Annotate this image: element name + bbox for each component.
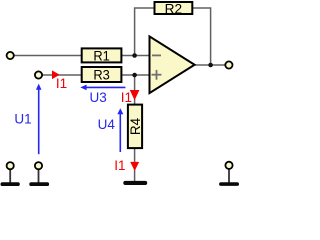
wire: op-amp output to terminal [195,64,225,66]
resistor R4 [128,105,143,149]
voltage arrow U3 [80,85,125,91]
resistor R2 [155,1,193,16]
terminal: input B [35,71,42,78]
wire: stem terminal G3 to ground [228,169,230,183]
node N2: R4 junction on non-inverting input [132,73,137,78]
svg-text:R1: R1 [93,49,110,64]
plus input symbol [152,70,162,80]
svg-text:I1: I1 [121,90,132,105]
op-amp [150,36,195,93]
svg-text:I1: I1 [114,158,125,173]
current arrow I1 below R4 [130,162,139,171]
wire: R3 to op-amp non-inverting input [122,74,150,76]
resistor R3 [82,67,122,83]
voltage arrow U1 [36,84,42,155]
resistor R1 [82,48,122,63]
terminal: ground ref G3 [225,162,232,169]
terminal: input A [7,52,14,59]
svg-text:R3: R3 [93,68,110,83]
wire: node N2 down to R4 top [134,75,136,105]
ground bar G3 [219,182,239,186]
node N3: output junction [208,63,213,68]
wire: input A to R1 [15,55,83,57]
svg-text:U3: U3 [90,90,107,105]
terminal: output [225,61,232,68]
wire: R1 to op-amp inverting input [122,55,150,57]
minus input symbol [152,54,161,56]
ground bar G1 [1,182,20,186]
ground bar under R4 [123,181,147,185]
svg-text:I1: I1 [56,76,67,91]
current arrow I1 into R3 [52,70,60,79]
wire: stem terminal G2 to ground [38,170,40,184]
terminal: ground ref G2 [35,162,42,169]
ground bar G2 [29,182,49,186]
wire: R4 bottom down to ground [134,149,136,183]
wire: stem terminal G1 to ground [9,170,11,184]
wire: R2 right down to output node [193,8,211,65]
wire: feedback from node N1 up to R2 left [135,8,154,56]
wire: input B to R3 [43,74,83,76]
svg-text:U4: U4 [98,117,116,132]
svg-text:R4: R4 [128,117,143,135]
current arrow I1 into R4 (top) [130,90,140,100]
svg-text:U1: U1 [14,112,31,127]
svg-text:R2: R2 [165,1,183,16]
terminal: ground ref G1 [7,162,14,169]
voltage arrow U4 [117,108,123,152]
node N1: feedback junction on inverting input [132,53,137,58]
